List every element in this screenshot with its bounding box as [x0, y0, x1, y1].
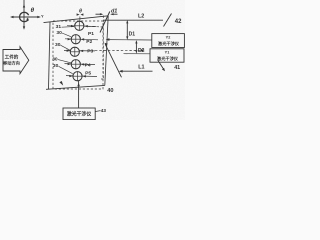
- svg-text:θ: θ: [79, 9, 82, 15]
- svg-text:激光干涉仪: 激光干涉仪: [67, 111, 92, 118]
- line L2: [103, 14, 163, 21]
- leader to label 41: [158, 61, 180, 72]
- svg-text:P5: P5: [85, 71, 91, 77]
- svg-text:Y1: Y1: [165, 51, 170, 55]
- laser interferometer box bottom: [63, 108, 95, 120]
- svg-text:Y2: Y2: [166, 36, 171, 40]
- beam through reflector P2: [65, 38, 98, 41]
- svg-text:激光干涉仪: 激光干涉仪: [157, 55, 179, 62]
- label 30 leader to P5: [53, 63, 73, 74]
- leader to label 42: [164, 14, 172, 27]
- svg-text:θ: θ: [31, 7, 35, 14]
- svg-text:L2: L2: [138, 14, 144, 20]
- svg-text:31: 31: [56, 24, 62, 30]
- svg-text:D1: D1: [129, 32, 136, 38]
- svg-text:激光干涉仪: 激光干涉仪: [158, 40, 180, 47]
- label 30 leader to P2: [56, 30, 71, 37]
- arrowhead on stage bottom edge: [59, 81, 63, 86]
- leader to label 40: [105, 43, 122, 78]
- laser interferometer box Y2: [152, 34, 185, 48]
- block arrow workpiece moving direction: [3, 47, 29, 74]
- beam through reflector P3 to interferometer Y1: [64, 49, 145, 52]
- mirror 42 tilted line: [100, 12, 110, 33]
- svg-text:41: 41: [174, 65, 180, 71]
- svg-text:D2: D2: [138, 48, 145, 54]
- dimension D2: [135, 40, 144, 54]
- beam through reflector P4: [65, 63, 96, 66]
- svg-text:工件的: 工件的: [5, 54, 19, 61]
- svg-text:40: 40: [107, 88, 113, 94]
- svg-text:P2: P2: [86, 39, 92, 45]
- leader to label 43: [95, 108, 106, 113]
- line L1: [119, 65, 153, 73]
- svg-text:Y: Y: [41, 14, 44, 19]
- dimension d1: [96, 9, 118, 16]
- rotation arc theta: [20, 12, 29, 21]
- dashed reference rectangle: [53, 21, 103, 89]
- beam down from P5 to interferometer: [77, 81, 79, 108]
- reference line lower: [124, 53, 151, 55]
- svg-text:P3: P3: [87, 49, 93, 55]
- coordinate symbol axes cross: [10, 0, 41, 30]
- reflector 31 circle P1: [75, 21, 84, 30]
- reflector 30 circle P3: [70, 47, 79, 56]
- small offset dimension above P1: [77, 9, 84, 22]
- svg-text:42: 42: [175, 19, 182, 25]
- beam through reflector P5: [66, 75, 97, 78]
- svg-text:30: 30: [52, 57, 58, 63]
- svg-text:30: 30: [53, 63, 59, 69]
- svg-text:移动方向: 移动方向: [3, 60, 20, 67]
- label 31 leader: [56, 24, 74, 30]
- dimension D1: [126, 20, 135, 40]
- centerline end tick: [101, 78, 103, 80]
- svg-text:30: 30: [55, 42, 61, 48]
- svg-text:d1: d1: [111, 9, 117, 15]
- svg-text:43: 43: [101, 108, 107, 113]
- label 30 leader to P4: [52, 57, 71, 63]
- laser interferometer box Y1: [150, 49, 184, 62]
- svg-text:P1: P1: [88, 31, 94, 37]
- reflector 30 circle P5: [73, 72, 82, 81]
- reflector 30 circle P4: [71, 60, 80, 69]
- reflector 30 circle P2: [71, 35, 80, 44]
- svg-text:P4: P4: [85, 63, 91, 69]
- svg-text:30: 30: [56, 30, 62, 36]
- tilted stage outline 40: [44, 16, 109, 90]
- reference line from P2 beam: [106, 38, 152, 41]
- dashed centerline vertical: [102, 16, 104, 80]
- svg-text:L1: L1: [138, 65, 144, 71]
- beam through reflector P1: [67, 25, 103, 28]
- label 30 leader to P3: [55, 42, 70, 50]
